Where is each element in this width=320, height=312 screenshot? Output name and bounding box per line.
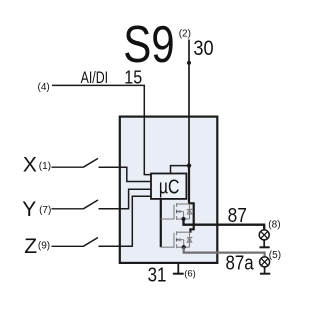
body diode (zener) xyxy=(189,204,191,219)
switch Y blade xyxy=(83,200,98,209)
control module body (switch module) xyxy=(120,117,218,263)
node: junction dot 30/uC xyxy=(187,163,191,167)
wire: Y input left xyxy=(52,208,84,210)
svg-text:(8): (8) xyxy=(268,219,280,230)
wire: output 87 xyxy=(184,219,265,230)
svg-text:(4): (4) xyxy=(38,82,50,93)
ground at lamp E2 xyxy=(260,273,270,275)
lamp E1 xyxy=(259,230,269,247)
body diode (zener) xyxy=(189,232,191,247)
wire: Z input left xyxy=(52,245,84,247)
svg-text:(5): (5) xyxy=(269,250,281,261)
wire: X input left xyxy=(52,166,84,168)
svg-text:AI/DI: AI/DI xyxy=(81,69,109,87)
wire: 30 branch to microcontroller xyxy=(171,166,190,174)
svg-text:Y: Y xyxy=(22,198,36,221)
wire: output 87a xyxy=(184,247,265,257)
node: T2 source junction xyxy=(182,245,186,249)
switch X blade xyxy=(83,158,98,167)
wire: terminal 30 feed xyxy=(188,40,190,166)
channel segments xyxy=(176,231,178,235)
svg-text:(9): (9) xyxy=(38,241,50,252)
wire: 30 drain supply through module xyxy=(189,166,194,233)
gate lead xyxy=(161,218,174,220)
svg-text:(1): (1) xyxy=(39,161,51,172)
source stub xyxy=(177,246,190,248)
ground: terminal 31 xyxy=(173,262,184,274)
body-source tie xyxy=(183,212,185,220)
body arrow xyxy=(177,211,184,213)
switch Z blade xyxy=(83,238,98,247)
drain stub xyxy=(177,231,191,233)
svg-text:µC: µC xyxy=(159,176,180,198)
microcontroller U1 xyxy=(151,174,186,199)
wire: Z input to microcontroller xyxy=(99,196,152,246)
wire: X input to microcontroller xyxy=(99,167,152,181)
svg-text:X: X xyxy=(23,154,37,177)
drain stub xyxy=(177,203,190,205)
svg-text:Z: Z xyxy=(24,235,37,258)
gate bar xyxy=(173,205,175,220)
wire: Y input to microcontroller xyxy=(99,189,152,209)
svg-text:(7): (7) xyxy=(39,205,51,216)
svg-text:(2): (2) xyxy=(179,28,191,39)
gate bar xyxy=(173,233,175,248)
svg-text:30: 30 xyxy=(193,37,213,60)
gate lead xyxy=(161,246,174,248)
lamp E2 xyxy=(260,257,270,274)
ground at lamp E1 xyxy=(260,246,270,248)
node: T1 source junction xyxy=(181,217,185,221)
body arrow xyxy=(177,239,184,241)
transistor T2 (high side switch, output 87a) xyxy=(161,231,192,248)
svg-text:S9: S9 xyxy=(123,16,175,74)
wire: AI/DI terminal 15 input xyxy=(52,85,152,174)
source stub xyxy=(177,218,190,220)
wire: gate drive line from microcontroller xyxy=(160,199,162,247)
transistor T1 (high side switch, output 87) xyxy=(161,203,192,220)
svg-text:(6): (6) xyxy=(184,268,196,279)
svg-text:15: 15 xyxy=(124,66,142,87)
node: junction dot on 30 line xyxy=(187,61,191,65)
channel segments xyxy=(176,203,178,207)
svg-text:87: 87 xyxy=(228,204,247,227)
body-source tie xyxy=(183,240,185,248)
svg-text:87a: 87a xyxy=(226,251,255,274)
svg-text:31: 31 xyxy=(148,264,167,287)
